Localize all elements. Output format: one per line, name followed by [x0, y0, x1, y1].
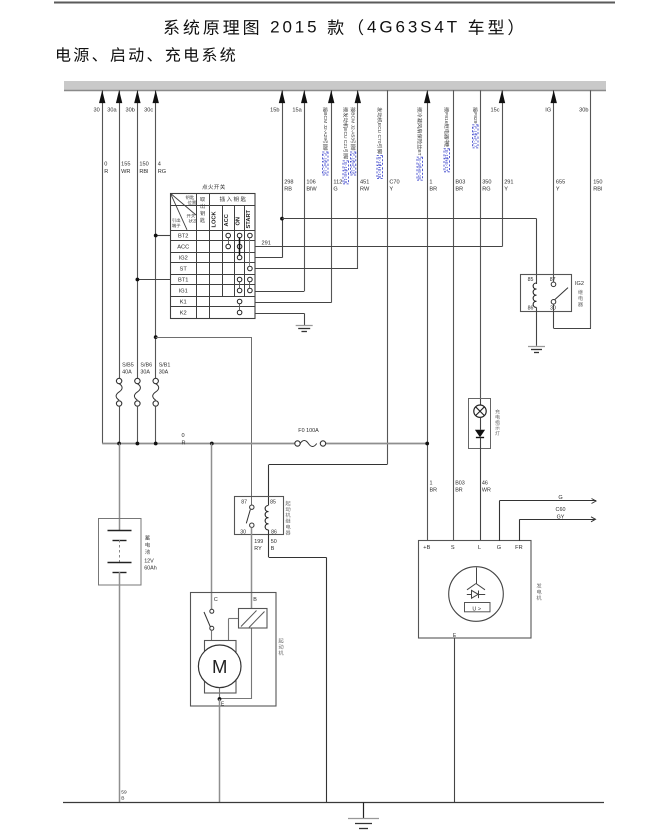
wire 15b (298 RB): [279, 90, 285, 218]
svg-text:30A: 30A: [140, 369, 150, 375]
terminal E alternator: [453, 633, 457, 639]
wire IG2 coil ground: [536, 308, 538, 346]
wire 46 WR: [480, 449, 482, 541]
svg-text:C70: C70: [389, 179, 399, 185]
svg-text:R: R: [104, 169, 108, 175]
svg-text:4: 4: [158, 162, 161, 168]
net label 30b: [126, 108, 135, 114]
svg-text:S/B5: S/B5: [122, 362, 134, 368]
svg-text:START: START: [246, 209, 252, 228]
wire 30b lower: [137, 406, 139, 443]
pin 85 IG2: [528, 277, 534, 283]
value label C70 Y: [389, 179, 399, 192]
svg-text:WR: WR: [482, 488, 491, 494]
relay IG2: [521, 275, 572, 312]
svg-text:291: 291: [504, 179, 513, 185]
wire 112 G: [328, 90, 334, 302]
wire motor negative: [220, 688, 252, 699]
value label 4 RG: [158, 162, 166, 175]
svg-text:30: 30: [240, 529, 246, 535]
svg-text:S/B1: S/B1: [159, 362, 171, 368]
label 59 B: [121, 789, 127, 801]
value label B03 BR: [455, 179, 465, 192]
svg-text:E-15: E-15: [444, 150, 449, 160]
svg-text:86: 86: [528, 306, 534, 312]
value label 350 RG: [482, 179, 491, 192]
svg-text:ST: ST: [180, 267, 188, 273]
svg-text:BR: BR: [429, 187, 437, 193]
svg-text:RW: RW: [360, 187, 370, 193]
wire 30c (4 RG): [153, 90, 159, 378]
wire 30a lower: [119, 406, 121, 443]
label G: [558, 495, 562, 501]
svg-text:B: B: [271, 546, 275, 552]
terminal B: [253, 597, 257, 603]
svg-text:155: 155: [121, 162, 130, 168]
svg-text:E-17: E-17: [473, 138, 478, 148]
svg-text:G: G: [497, 545, 501, 551]
svg-text:BCM: BCM: [322, 112, 328, 123]
label 接F829: [472, 107, 478, 148]
node 30b feed: [136, 442, 140, 446]
svg-text:ECU: ECU: [376, 123, 382, 134]
svg-text:30A: 30A: [159, 369, 169, 375]
svg-text:15b: 15b: [270, 108, 279, 114]
main ground: [348, 803, 379, 829]
starter relay: [235, 497, 284, 535]
wire BT2 to 30c: [154, 234, 171, 238]
label S/B5 40A: [122, 362, 134, 375]
svg-text:L: L: [478, 545, 481, 551]
svg-text:30b: 30b: [126, 108, 135, 114]
svg-text:BlW: BlW: [306, 187, 317, 193]
label 1 BR mid: [430, 480, 438, 493]
label C60 GY: [556, 507, 566, 520]
label 接F816继电器: [443, 107, 450, 172]
pin 30 IG2: [550, 306, 556, 312]
svg-text:+B: +B: [423, 545, 430, 551]
wire IG (655 Y): [551, 90, 557, 281]
wire 350 RG: [480, 90, 482, 399]
value label 150 RBl: [593, 179, 602, 192]
title 系统原理图 2015 款（4G63S4T 车型）: [164, 17, 512, 36]
terminal C: [214, 597, 218, 603]
battery 12V 60Ah: [99, 519, 142, 586]
svg-text:30a: 30a: [107, 108, 117, 114]
wire 30a (155 WR): [116, 90, 122, 378]
wire starter C: [211, 444, 213, 612]
svg-text:E-15: E-15: [473, 126, 478, 136]
svg-text:S/B6: S/B6: [140, 362, 152, 368]
fuse F0 100A: [295, 441, 326, 447]
wire FR output: [520, 517, 596, 541]
svg-text:BR: BR: [430, 488, 438, 494]
svg-text:ECU: ECU: [342, 128, 348, 139]
svg-text:30b: 30b: [579, 108, 588, 114]
node battery feed: [117, 442, 121, 446]
label 发电机: [537, 583, 542, 600]
svg-text:12V: 12V: [144, 558, 154, 564]
wire IG2 out: [255, 219, 283, 258]
starter box: [191, 593, 277, 707]
label 蓄电池 12V 60Ah: [144, 535, 157, 571]
value label 106 BlW: [306, 179, 317, 192]
svg-text:K2: K2: [180, 311, 187, 317]
ground rail: [63, 802, 604, 804]
svg-text:85: 85: [270, 500, 276, 506]
wire K2 to ground: [255, 313, 305, 325]
wire 30c lower: [155, 406, 157, 443]
svg-text:ACC: ACC: [177, 245, 189, 251]
row label ACC: [177, 245, 189, 251]
svg-text:0: 0: [182, 433, 185, 439]
svg-text:G: G: [558, 495, 562, 501]
svg-text:E-17: E-17: [444, 162, 449, 172]
label 起动机: [279, 638, 284, 655]
svg-text:E-16: E-16: [350, 153, 355, 163]
svg-text:BCM: BCM: [350, 112, 356, 123]
svg-text:B: B: [121, 795, 124, 801]
label F0 100A: [298, 428, 319, 434]
value label 0 R: [104, 162, 108, 175]
svg-text:199: 199: [254, 539, 263, 545]
svg-text:BR: BR: [455, 488, 463, 494]
svg-text:85: 85: [528, 277, 534, 283]
svg-text:S: S: [451, 545, 455, 551]
svg-text:G: G: [333, 187, 337, 193]
svg-text:E-16: E-16: [343, 162, 348, 172]
alternator symbol: [449, 567, 504, 622]
svg-text:F816: F816: [443, 112, 449, 123]
label 充电指示灯: [495, 409, 500, 435]
svg-text:C21: C21: [342, 140, 348, 149]
node alternator +B: [425, 442, 429, 446]
svg-text:RY: RY: [254, 546, 262, 552]
svg-text:E-18: E-18: [377, 169, 382, 179]
svg-text:RG: RG: [158, 169, 166, 175]
label 点火开关: [202, 184, 225, 189]
row label BT2: [178, 234, 188, 240]
svg-text:15c: 15c: [490, 108, 499, 114]
node 30c feed: [154, 442, 158, 446]
fuse S/B1 30A: [153, 378, 159, 406]
wire 451 RW: [355, 90, 361, 269]
header label LOCK: [212, 210, 218, 227]
wire 15b to IG2 relay coil: [282, 219, 537, 285]
net label 15a: [292, 108, 302, 114]
svg-text:R: R: [182, 440, 186, 446]
wire 199 RY: [251, 527, 253, 609]
svg-text:150: 150: [593, 179, 602, 185]
svg-text:59: 59: [121, 789, 127, 795]
wire starter relay coil from C70: [269, 465, 388, 506]
svg-text:RG: RG: [482, 187, 490, 193]
link line START col BT2-ST: [249, 238, 251, 266]
svg-text:BT: BT: [416, 149, 422, 155]
svg-text:298: 298: [284, 179, 293, 185]
svg-text:Y: Y: [556, 187, 560, 193]
fuse S/B5 40A: [116, 378, 122, 406]
svg-text:F0 100A: F0 100A: [298, 428, 319, 434]
svg-text:U >: U >: [472, 606, 481, 612]
subtitle 电源、启动、充电系统: [57, 47, 235, 62]
contact circle ST: [248, 266, 253, 271]
label 291: [262, 240, 271, 246]
wire solenoid left: [228, 619, 238, 641]
wire 1 BR: [424, 90, 430, 541]
svg-text:87: 87: [241, 500, 247, 506]
label 46 WR mid: [482, 480, 491, 493]
wire battery negative: [119, 586, 121, 803]
label 50 B: [271, 539, 277, 552]
svg-text:ACC: ACC: [224, 214, 230, 226]
wire switch to motor: [211, 630, 213, 640]
wire alternator E: [454, 639, 456, 803]
svg-text:E-18: E-18: [343, 174, 348, 184]
svg-text:87: 87: [550, 277, 556, 283]
value label 1 BR: [429, 179, 437, 192]
value label 655 Y: [556, 179, 565, 192]
svg-text:4G63S4T: 4G63S4T: [367, 17, 460, 36]
starter solenoid: [239, 609, 268, 629]
label S/B1 30A: [159, 362, 171, 375]
svg-text:50: 50: [271, 539, 277, 545]
wire 0 R rail: [102, 443, 427, 445]
net label 30c: [144, 108, 153, 114]
svg-text:IG1: IG1: [179, 289, 188, 295]
svg-text:RBl: RBl: [593, 187, 602, 193]
wire C70 Y: [387, 90, 389, 464]
terminal S: [451, 545, 455, 551]
svg-text:F829: F829: [472, 112, 478, 123]
row label IG2: [179, 256, 188, 262]
svg-text:2015: 2015: [270, 17, 319, 36]
pin 30: [240, 529, 246, 535]
node 15b junction: [280, 217, 284, 221]
value label 150 RBl: [139, 162, 148, 175]
svg-text:E-16: E-16: [417, 158, 422, 168]
alternator box: [419, 541, 532, 639]
label 0 R rail: [182, 433, 186, 446]
contact circle K1: [237, 299, 242, 304]
starter motor M: [198, 641, 241, 694]
terminal +B: [423, 545, 430, 551]
link line ON col BT2-IG2: [239, 238, 241, 255]
pin 87 IG2: [550, 277, 556, 283]
svg-text:M: M: [212, 656, 227, 677]
header label ACC: [224, 214, 230, 226]
node 30c branch: [154, 335, 158, 339]
label 发动机ECU C70引脚: [376, 107, 382, 178]
pin 87: [241, 500, 247, 506]
terminal E starter: [221, 701, 225, 707]
value label 112 G: [333, 179, 342, 192]
svg-text:C: C: [214, 597, 218, 603]
svg-text:655: 655: [556, 179, 565, 185]
net label 30a: [107, 108, 117, 114]
contact circles ACC: [226, 244, 242, 249]
svg-text:C60: C60: [556, 507, 566, 513]
label 接冷凝风扇保险丝: [416, 107, 422, 180]
svg-text:106: 106: [306, 179, 315, 185]
svg-text:1: 1: [429, 179, 432, 185]
wire 30b (150 RBl): [134, 90, 140, 378]
wire 291 Y: [499, 90, 505, 247]
wire 30c to starter relay 87: [156, 337, 252, 505]
fuse S/B6 30A: [134, 378, 140, 406]
svg-text:GY: GY: [557, 514, 565, 520]
svg-text:E-16: E-16: [377, 157, 382, 167]
link line START col BT1-IG1: [249, 282, 251, 288]
svg-text:IG2: IG2: [575, 281, 584, 287]
svg-text:150: 150: [139, 162, 148, 168]
svg-text:451: 451: [360, 179, 369, 185]
label 接BCM J2-A29引脚: [322, 107, 328, 175]
row label BT1: [178, 278, 188, 284]
row label K1: [180, 300, 187, 306]
svg-text:WR: WR: [121, 169, 130, 175]
value label 298 RB: [284, 179, 293, 192]
wire K1 out: [255, 302, 331, 304]
svg-text:30c: 30c: [144, 108, 153, 114]
svg-text:15a: 15a: [292, 108, 302, 114]
svg-text:J2-A29: J2-A29: [322, 125, 328, 141]
wire 15a (106 BlW): [301, 90, 307, 291]
svg-text:RBl: RBl: [139, 169, 148, 175]
svg-text:B03: B03: [455, 480, 465, 486]
svg-text:BT1: BT1: [178, 278, 188, 284]
label IG2: [575, 281, 584, 287]
net label 15c: [490, 108, 499, 114]
terminal FR: [515, 545, 522, 551]
svg-text:B03: B03: [455, 179, 465, 185]
label 接BCM J2-A53引脚: [350, 107, 356, 175]
svg-text:IG: IG: [545, 108, 551, 114]
svg-text:B: B: [253, 597, 257, 603]
terminal L: [478, 545, 481, 551]
label 起动机继电器: [286, 501, 291, 535]
svg-text:46: 46: [482, 480, 488, 486]
top rule: [54, 2, 615, 4]
wire G output: [499, 499, 596, 542]
wire ST out: [255, 268, 358, 270]
label S/B6 30A: [140, 362, 152, 375]
svg-text:291: 291: [262, 240, 271, 246]
value label 451 RW: [360, 179, 370, 192]
svg-text:86: 86: [271, 529, 277, 535]
ignition switch table frame: [171, 193, 256, 318]
svg-text:Y: Y: [389, 187, 393, 193]
header label 开关状态: [187, 214, 197, 223]
contact circles BT1: [237, 277, 252, 282]
svg-text:中: 中: [443, 139, 450, 144]
wire solenoid bottom: [251, 629, 253, 700]
wire ACC out 291: [255, 246, 502, 248]
svg-text:Y: Y: [504, 187, 508, 193]
label 199 RY: [254, 539, 263, 552]
svg-text:1: 1: [430, 480, 433, 486]
svg-text:IG2: IG2: [179, 256, 188, 262]
contact circle K2: [237, 310, 242, 315]
svg-text:BT2: BT2: [178, 234, 188, 240]
svg-text:60Ah: 60Ah: [144, 566, 157, 572]
header label 取出钥匙: [200, 197, 205, 223]
contact circles IG1: [237, 288, 252, 293]
svg-text:E-18: E-18: [417, 170, 422, 180]
wire 30b right (150 RBl): [590, 90, 592, 328]
power bus bar: [64, 81, 606, 91]
value label 291 Y: [504, 179, 513, 192]
svg-text:40A: 40A: [122, 369, 132, 375]
net label 30b: [579, 108, 588, 114]
value label 155 WR: [121, 162, 130, 175]
contact circle IG2: [237, 255, 242, 260]
wire B03 BR: [453, 90, 455, 541]
header label 钥匙位置: [186, 195, 196, 204]
svg-text:0: 0: [104, 162, 107, 168]
wire starter E: [219, 699, 221, 803]
charge indicator lamp: [469, 399, 491, 450]
link line ACC col: [228, 238, 230, 244]
svg-text:BR: BR: [455, 187, 463, 193]
svg-text:112: 112: [333, 179, 342, 185]
ground IG2 relay: [528, 347, 545, 353]
svg-text:350: 350: [482, 179, 491, 185]
svg-text:E-16: E-16: [323, 153, 328, 163]
terminal G: [497, 545, 501, 551]
node starter E: [218, 697, 222, 701]
pin 86: [271, 529, 277, 535]
label B03 BR mid: [455, 480, 465, 493]
net label 15b: [270, 108, 279, 114]
header label 引出端子: [172, 218, 180, 227]
svg-text:LOCK: LOCK: [212, 210, 218, 227]
header label START: [246, 209, 252, 228]
header label 插入钥匙: [220, 196, 246, 201]
row label K2: [180, 311, 187, 317]
svg-text:C70: C70: [376, 135, 382, 144]
wire IG2 30 to 30b: [554, 304, 592, 329]
label 继电器: [578, 290, 583, 307]
svg-text:E-18: E-18: [323, 165, 328, 175]
link line ON col BT1-IG1: [239, 282, 241, 288]
svg-text:FR: FR: [515, 545, 522, 551]
row label ST: [180, 267, 188, 273]
svg-text:30: 30: [93, 108, 99, 114]
pin 85: [270, 500, 276, 506]
svg-text:ON: ON: [236, 217, 242, 226]
wire IG1 out: [255, 291, 304, 293]
header label ON: [236, 217, 242, 226]
label 接发动机ECU C21引脚: [342, 107, 348, 184]
node starter C feed: [210, 442, 214, 446]
svg-text:K1: K1: [180, 300, 187, 306]
wire 50 B: [269, 530, 327, 803]
row label IG1: [179, 289, 188, 295]
svg-text:RB: RB: [284, 187, 292, 193]
net label IG: [545, 108, 551, 114]
wire 30 (0 R): [99, 90, 105, 443]
link line ON col K1-K2: [239, 304, 241, 310]
pin 86 IG2: [528, 306, 534, 312]
ground K2: [296, 326, 313, 332]
svg-text:J2-A53: J2-A53: [350, 125, 356, 141]
wire BT1 to 30b: [136, 278, 171, 282]
starter switch: [204, 609, 214, 630]
wire battery positive: [119, 444, 121, 532]
contact circles BT2: [226, 233, 252, 238]
net label 30: [93, 108, 99, 114]
